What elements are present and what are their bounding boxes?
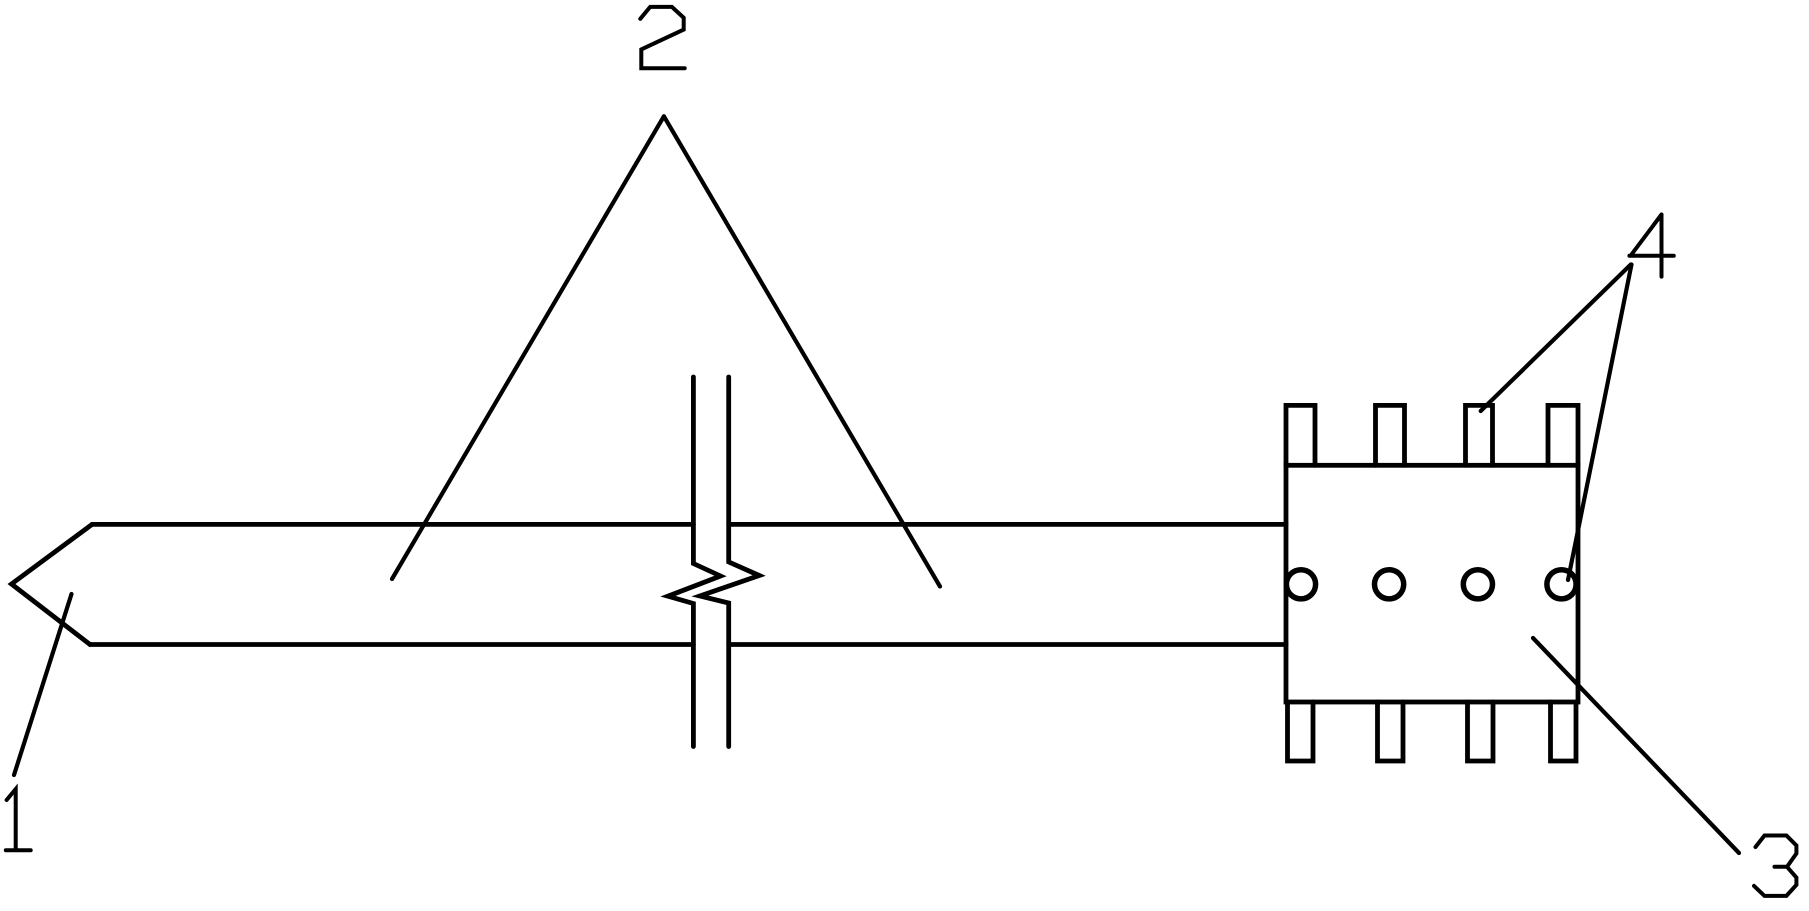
label digit 2 xyxy=(640,7,684,68)
label digit 1 xyxy=(6,789,31,850)
leader line to 3 xyxy=(1533,638,1739,853)
top tab 4 xyxy=(1548,405,1578,465)
label digit 3 xyxy=(1754,836,1796,896)
top tab 1 xyxy=(1286,405,1315,465)
hole 4a xyxy=(1286,570,1315,599)
rod tip point (left end) xyxy=(12,524,93,644)
rod bottom edge (right segment) xyxy=(729,642,1286,647)
rod top edge (left segment) xyxy=(92,522,693,527)
leader line 4 (to hole 4d) xyxy=(1568,265,1632,581)
hole 4c xyxy=(1463,570,1492,599)
anchor block body 3 xyxy=(1286,465,1578,702)
bottom tab 1 xyxy=(1288,702,1314,761)
label digit 4 xyxy=(1629,215,1673,277)
top tab 3 xyxy=(1466,405,1493,465)
leader line 2 (left leg) xyxy=(392,116,664,579)
leader line to 1 xyxy=(14,594,72,775)
bottom tab 3 xyxy=(1468,702,1494,761)
top tab 2 xyxy=(1376,405,1405,465)
bottom tab 2 xyxy=(1378,702,1404,761)
bottom tab 4 xyxy=(1551,702,1577,761)
leader line 2 (right leg) xyxy=(664,116,940,586)
hole 4b xyxy=(1375,570,1404,599)
break line (right zigzag) xyxy=(700,377,759,747)
rod bottom edge (left segment) xyxy=(90,642,693,647)
rod top edge (right segment) xyxy=(729,522,1286,527)
leader line 4 (to top tab 3) xyxy=(1481,265,1631,412)
hole 4d xyxy=(1547,570,1576,599)
break line (left zigzag) xyxy=(668,377,721,747)
